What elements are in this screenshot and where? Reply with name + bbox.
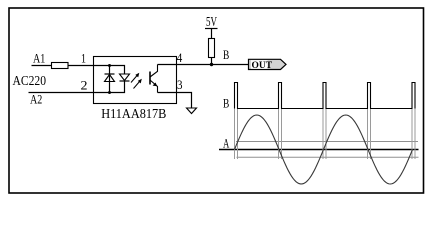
lower threshold line (237, 156, 419, 158)
svg-text:B: B (223, 96, 230, 111)
waveform A zero axis line (219, 149, 419, 151)
wire resistor to pin 1 (68, 65, 93, 67)
svg-text:1: 1 (81, 50, 86, 65)
svg-text:3: 3 (177, 77, 183, 92)
upper threshold line (236, 141, 418, 143)
junction dot bottom (node 2 rail) (108, 91, 111, 94)
wire collector to pin4 (158, 64, 177, 66)
timing line pulse2 (279, 109, 282, 160)
ground (187, 108, 197, 114)
light arrow 1 (131, 73, 139, 83)
svg-text:OUT: OUT (252, 61, 273, 71)
wire 5V to resistor (211, 29, 213, 39)
timing line pulse4 (368, 109, 371, 160)
optocoupler U1 box (94, 57, 177, 104)
signal B trace with pulses (235, 83, 416, 109)
phototransistor Q1 (150, 65, 158, 93)
svg-text:H11AA817B: H11AA817B (101, 107, 166, 122)
svg-text:AC220: AC220 (13, 74, 47, 89)
resistor R2 (209, 39, 215, 58)
wire top rail inside (93, 66, 125, 75)
border frame (decorative) (9, 8, 424, 193)
svg-text:2: 2 (81, 77, 88, 92)
junction node B dot (210, 63, 213, 66)
wire pin3 to ground (176, 93, 192, 109)
wire pin4 to node B (176, 64, 249, 66)
diode D2 (cathode down) (120, 74, 130, 81)
junction dot top (node 1 rail) (108, 64, 111, 67)
diode D1 vertical wire (109, 66, 111, 93)
wire A1 to resistor (32, 65, 52, 67)
svg-text:A1: A1 (33, 50, 45, 65)
power rail bar (205, 28, 218, 30)
svg-text:5V: 5V (206, 14, 217, 29)
wire resistor to node B (211, 58, 213, 65)
wire emitter to pin3 (158, 92, 177, 94)
timing line pulse5 (412, 109, 415, 160)
svg-text:A: A (223, 136, 230, 151)
svg-text:4: 4 (177, 50, 183, 65)
OUT port flag (249, 59, 287, 71)
timing line pulse3 (323, 109, 326, 160)
timing line pulse1 (235, 109, 238, 160)
wire A2 to pin 2 (29, 92, 94, 94)
wire bottom rail inside (93, 81, 125, 93)
light arrow 2 (134, 79, 142, 89)
svg-text:A2: A2 (30, 91, 42, 106)
sine wave A (235, 115, 413, 184)
svg-text:B: B (223, 47, 230, 62)
diode D1 (cathode up) (105, 74, 115, 82)
resistor R1 (52, 63, 69, 69)
